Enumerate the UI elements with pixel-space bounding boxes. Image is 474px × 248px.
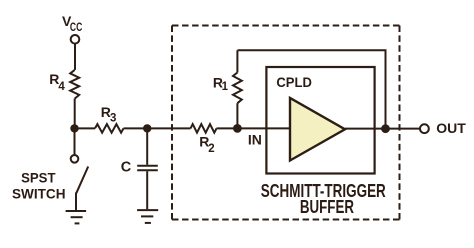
svg-text:SPST: SPST <box>21 169 56 185</box>
svg-text:CPLD: CPLD <box>276 74 312 90</box>
svg-text:1: 1 <box>222 81 229 93</box>
svg-text:C: C <box>121 159 132 175</box>
svg-text:2: 2 <box>208 143 214 155</box>
svg-text:OUT: OUT <box>436 120 466 136</box>
svg-text:SWITCH: SWITCH <box>12 186 66 202</box>
svg-text:BUFFER: BUFFER <box>300 196 354 217</box>
svg-text:3: 3 <box>110 113 116 125</box>
svg-text:CC: CC <box>70 22 82 34</box>
svg-text:4: 4 <box>58 81 65 93</box>
svg-text:IN: IN <box>248 132 262 148</box>
